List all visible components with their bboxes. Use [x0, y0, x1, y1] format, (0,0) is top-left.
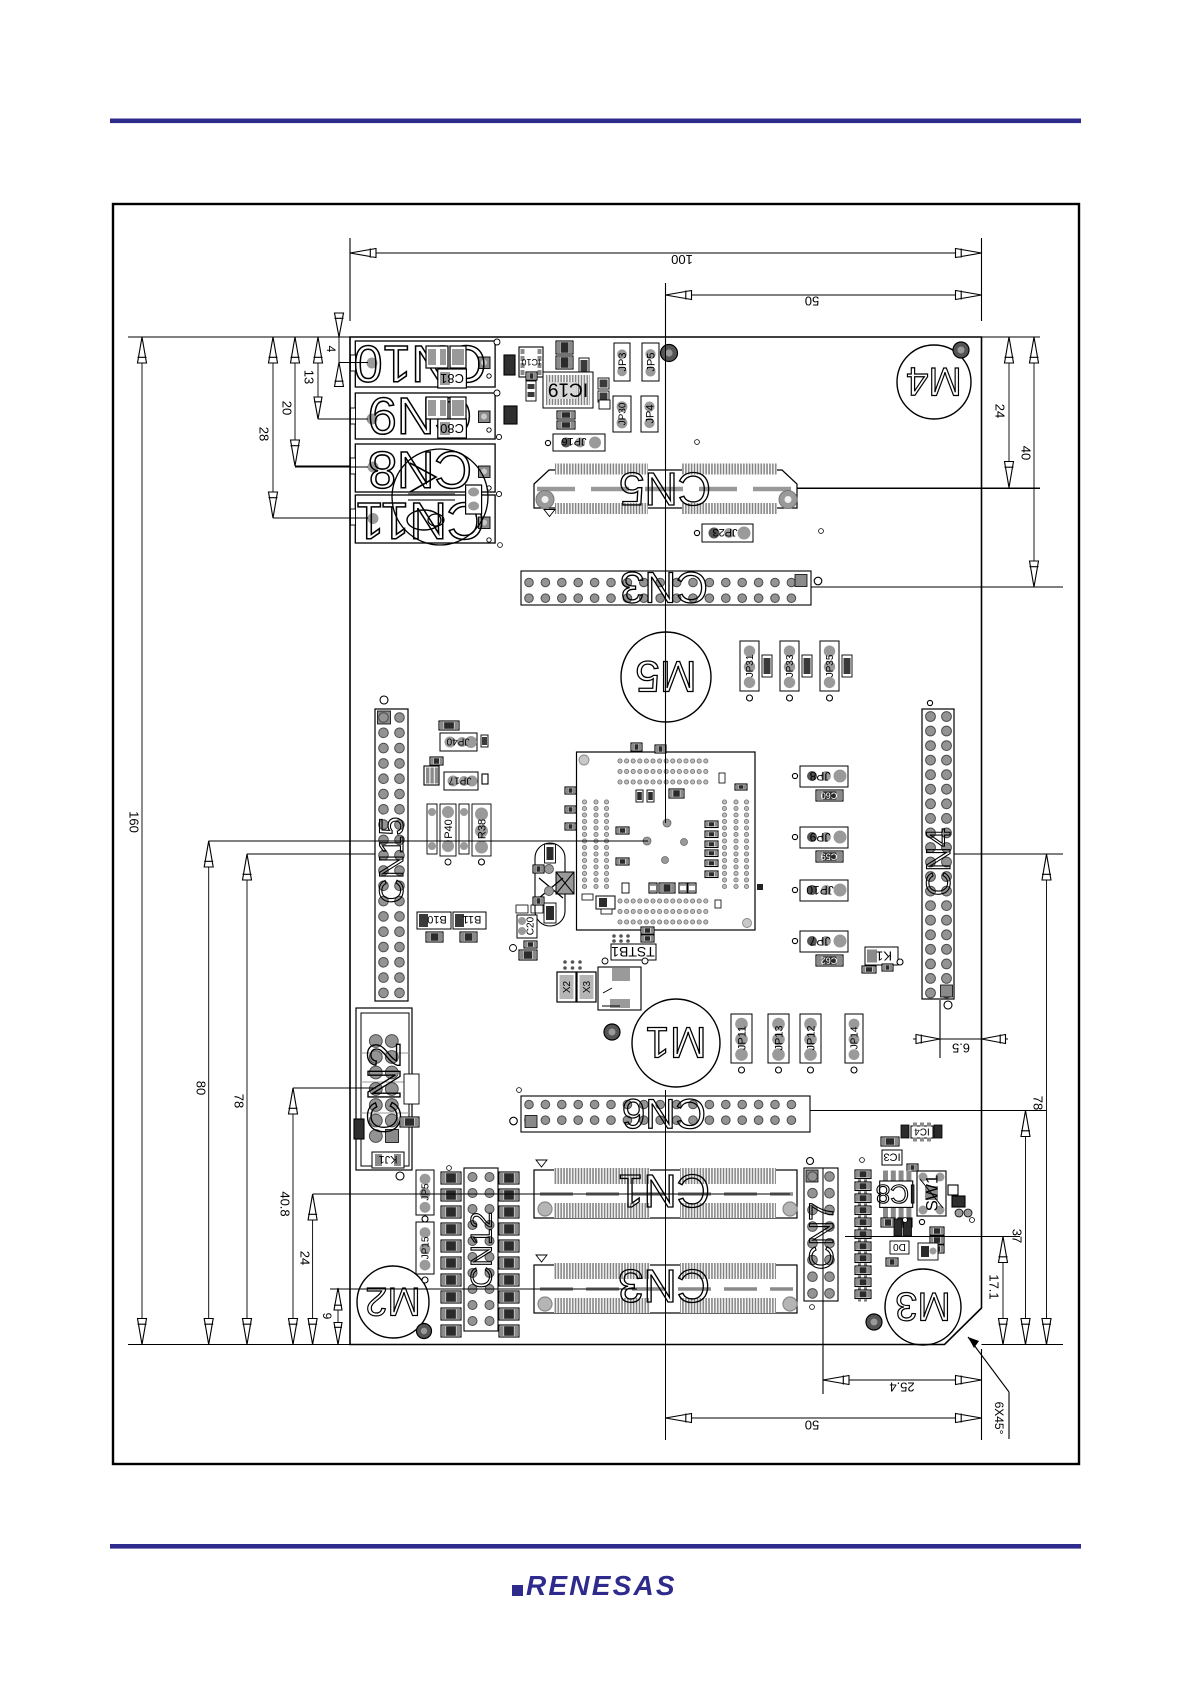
board outline	[350, 337, 982, 1345]
dimension 78 right	[1046, 854, 1048, 1345]
jumper JP23	[702, 524, 753, 542]
pad centre	[663, 819, 671, 827]
svg-text:JP17: JP17	[448, 775, 471, 786]
svg-text:24: 24	[298, 1251, 313, 1265]
crystal X1 body	[556, 872, 574, 894]
connector CN15	[375, 709, 408, 1001]
Renesas logo	[512, 1570, 677, 1601]
svg-text:CN3: CN3	[618, 1260, 710, 1312]
svg-text:78: 78	[1031, 1096, 1046, 1110]
jumper JP35	[820, 641, 839, 691]
jumper JP3	[613, 396, 631, 432]
IC7 sot	[424, 766, 439, 785]
svg-text:B11: B11	[463, 913, 482, 925]
oscillator TSTB1	[611, 944, 656, 960]
svg-text:C81: C81	[440, 371, 464, 386]
svg-text:CN15: CN15	[373, 817, 411, 904]
svg-text:C60: C60	[821, 790, 838, 800]
svg-text:9: 9	[320, 1313, 334, 1320]
mount hole M3	[885, 1269, 961, 1345]
jumper JP40	[440, 733, 477, 751]
svg-text:C80: C80	[440, 421, 464, 436]
svg-text:CN3: CN3	[620, 563, 708, 612]
test point TP1	[661, 345, 678, 362]
crystal X2	[557, 972, 576, 1002]
oscillator OSC1	[598, 967, 641, 1010]
svg-text:JP15: JP15	[421, 1236, 432, 1259]
resistors left of U1	[516, 905, 528, 913]
svg-text:C20: C20	[526, 916, 537, 935]
jumper JP12	[800, 1014, 821, 1063]
svg-text:RENESAS: RENESAS	[526, 1570, 677, 1601]
test point TP2	[604, 1024, 620, 1040]
jumper JP7	[800, 931, 848, 952]
drawing frame	[113, 204, 1079, 1464]
capacitor C63	[557, 421, 575, 429]
relay K1	[865, 947, 898, 965]
connector CN1	[534, 1170, 797, 1218]
test point TP9	[866, 1314, 882, 1330]
svg-text:SW1: SW1	[923, 1175, 942, 1212]
extension line board top left	[128, 336, 350, 338]
buzzer BZ1	[392, 449, 488, 545]
capacitor C20	[517, 915, 537, 938]
jumper JP16	[553, 434, 605, 451]
extension line top corners vertical	[349, 238, 351, 321]
svg-text:C59: C59	[821, 851, 838, 861]
connector CN12	[464, 1168, 498, 1331]
marker triangle CN3	[536, 1255, 547, 1262]
dimension 17.1	[1002, 1237, 1004, 1345]
svg-text:IC10: IC10	[521, 357, 540, 367]
resistor column R30s	[855, 1170, 871, 1179]
svg-text:4: 4	[324, 346, 338, 353]
svg-text:JP30: JP30	[618, 402, 629, 425]
extension line x940 CN4 centre	[939, 1000, 941, 1058]
capacitor C93	[556, 341, 573, 354]
capacitor C62	[816, 955, 843, 966]
part TB0	[890, 1241, 909, 1254]
svg-text:P40: P40	[443, 819, 455, 839]
svg-text:R38: R38	[476, 819, 488, 839]
svg-text:100: 100	[671, 252, 693, 267]
svg-text:JP5: JP5	[421, 1183, 432, 1201]
capacitor C11	[430, 757, 443, 765]
connector CN3 bottom	[534, 1265, 797, 1313]
svg-text:28: 28	[256, 427, 271, 441]
svg-text:JP16: JP16	[561, 435, 586, 447]
dimension 28	[272, 337, 274, 518]
dimension 13	[317, 337, 319, 419]
svg-text:JP11: JP11	[736, 1026, 748, 1050]
note 6X45 chamfer	[1008, 1392, 1010, 1439]
jumper JP5b	[416, 1170, 434, 1215]
test point TP5	[417, 1324, 432, 1339]
extension line board top right	[982, 336, 1041, 338]
mount hole M2	[357, 1266, 429, 1338]
dimension 78 left	[246, 854, 248, 1345]
svg-text:6X45°: 6X45°	[992, 1402, 1006, 1435]
capacitor C61	[557, 411, 575, 419]
svg-text:TSTB1: TSTB1	[611, 944, 655, 960]
jumper JP5	[642, 343, 659, 381]
svg-text:160: 160	[127, 811, 142, 833]
svg-text:CN1: CN1	[618, 1165, 710, 1217]
connector CN7	[804, 1168, 838, 1301]
crystal X3	[577, 972, 596, 1002]
svg-text:CN4: CN4	[920, 828, 958, 896]
via dots	[498, 543, 503, 548]
jumper JP20	[930, 1227, 944, 1235]
jumper JP17	[444, 772, 478, 790]
test point TP8	[953, 342, 969, 358]
IC9	[901, 1125, 909, 1138]
svg-text:JP13: JP13	[773, 1025, 785, 1050]
svg-text:IC19: IC19	[548, 378, 588, 399]
capacitor C26	[524, 941, 537, 948]
extension line board bottom right	[982, 1344, 1064, 1346]
connector CN3 top	[521, 571, 811, 605]
svg-text:IC3: IC3	[883, 1151, 900, 1163]
resistor R2	[948, 1185, 958, 1195]
dimension 4	[338, 337, 340, 363]
resistor R20	[881, 1137, 899, 1146]
svg-text:KJ1: KJ1	[379, 1153, 398, 1165]
capacitor C83	[466, 485, 482, 514]
jumper JP14	[845, 1014, 863, 1063]
jumper JP9	[800, 827, 848, 848]
svg-text:CN12: CN12	[466, 1212, 499, 1289]
marker triangle CN1	[536, 1160, 547, 1167]
dimension 25.4	[823, 1379, 982, 1381]
svg-text:40: 40	[1018, 446, 1033, 460]
svg-text:17.1: 17.1	[987, 1274, 1002, 1299]
connector CN4	[922, 709, 954, 999]
mount hole M1	[632, 999, 720, 1087]
svg-text:80: 80	[194, 1081, 209, 1095]
svg-text:50: 50	[805, 293, 819, 308]
switch SW1	[917, 1171, 946, 1216]
svg-text:X2: X2	[562, 980, 573, 993]
part on CN2	[404, 1074, 419, 1104]
connector CN11	[355, 495, 495, 543]
svg-text:JP8: JP8	[809, 769, 830, 783]
svg-text:JP7: JP7	[809, 934, 830, 948]
svg-text:JP31: JP31	[745, 654, 756, 677]
dimension 6.5	[913, 1038, 1008, 1040]
svg-text:M2: M2	[365, 1279, 421, 1323]
dimension 9	[337, 1288, 339, 1345]
svg-text:CN7: CN7	[803, 1202, 841, 1270]
reference lines overlay	[339, 362, 368, 364]
dimension 24 left	[312, 1194, 314, 1345]
svg-text:JP3: JP3	[617, 353, 629, 372]
diodes D0	[881, 1218, 895, 1227]
IC8	[883, 1171, 888, 1181]
svg-text:M1: M1	[645, 1018, 706, 1067]
svg-text:C62: C62	[821, 955, 838, 965]
dimension 50 bottom	[666, 1417, 982, 1419]
svg-text:JP9: JP9	[809, 830, 830, 844]
jumper JP11	[731, 1014, 752, 1063]
resistor R30	[519, 950, 537, 960]
svg-text:78: 78	[232, 1094, 247, 1108]
dimension 37	[1025, 1111, 1027, 1345]
jumper JP4	[641, 396, 658, 432]
svg-text:JP33: JP33	[785, 654, 796, 677]
dimension 100	[350, 252, 982, 254]
jumper JP8	[800, 766, 848, 787]
resistor R38	[472, 804, 491, 856]
jumper JP15	[614, 343, 630, 381]
connector CN2	[356, 1008, 412, 1170]
svg-text:50: 50	[805, 1418, 819, 1433]
jumper JP31	[740, 641, 759, 691]
svg-text:JP40: JP40	[446, 736, 469, 747]
jack J1	[372, 1152, 404, 1168]
resistor column R60s	[441, 1172, 461, 1184]
vertical centre line	[665, 283, 667, 823]
dimension 50 top	[666, 294, 982, 296]
svg-text:M4: M4	[906, 359, 962, 403]
dimension 160	[141, 337, 143, 1345]
svg-text:JP14: JP14	[850, 1026, 861, 1049]
svg-text:X3: X3	[582, 980, 593, 993]
IC10	[519, 347, 543, 377]
jumper JP13	[768, 1014, 789, 1063]
IC6	[543, 372, 593, 408]
connector CN6	[521, 1096, 810, 1132]
svg-text:6.5: 6.5	[952, 1041, 970, 1056]
jumper B11	[453, 912, 486, 929]
part P bottom left of U1	[596, 896, 615, 909]
IC3	[882, 1150, 902, 1165]
dimension 40 right	[1033, 337, 1035, 587]
extension line board right bottom	[981, 1349, 983, 1440]
svg-text:B10: B10	[427, 913, 447, 925]
dimension 80	[208, 841, 210, 1345]
capacitor C60	[816, 790, 843, 801]
svg-text:24: 24	[992, 404, 1007, 418]
centre line through U1	[665, 752, 667, 823]
svg-text:25.4: 25.4	[889, 1380, 914, 1395]
jumper P41	[427, 804, 437, 854]
svg-text:JP35: JP35	[825, 654, 836, 677]
marker triangle CN5	[544, 510, 555, 517]
jumper P40	[440, 804, 456, 856]
module U1 QFP	[577, 752, 756, 930]
svg-text:JP4: JP4	[644, 405, 656, 424]
jumper B10	[417, 912, 451, 929]
jumper JP15b	[416, 1222, 434, 1274]
svg-text:D0: D0	[893, 1241, 906, 1252]
svg-text:20: 20	[279, 401, 294, 415]
connector CN5	[534, 470, 797, 508]
svg-text:JP23: JP23	[712, 526, 737, 538]
crystal X1	[535, 843, 565, 926]
connector CN9	[355, 393, 495, 439]
top rule	[110, 119, 1081, 124]
svg-text:JP10: JP10	[806, 883, 834, 897]
resistor column R50s	[499, 1172, 519, 1184]
svg-text:CN6: CN6	[622, 1090, 706, 1137]
svg-text:40.8: 40.8	[278, 1191, 293, 1216]
extension line board bottom left	[128, 1344, 350, 1346]
dimension 40.8	[292, 1088, 294, 1345]
resistor R61	[439, 721, 459, 730]
jumper JP33	[780, 641, 799, 691]
mount hole M5	[621, 632, 711, 722]
extension line x823 bottom	[822, 1168, 824, 1394]
svg-text:JP5: JP5	[645, 353, 657, 372]
bottom rule	[110, 1544, 1081, 1549]
capacitor C59	[816, 851, 843, 862]
diode D2	[504, 355, 515, 375]
svg-text:IC4: IC4	[914, 1126, 930, 1137]
dimension 24 right	[1008, 337, 1010, 488]
svg-text:K1: K1	[876, 949, 892, 964]
connector CN8	[355, 444, 495, 492]
capacitor C99	[556, 356, 573, 369]
svg-text:M3: M3	[895, 1284, 951, 1328]
dimension 20	[294, 337, 296, 466]
connector CN10	[355, 341, 495, 387]
jumper JP10	[800, 880, 848, 901]
mount hole M4	[897, 345, 971, 419]
svg-text:JP12: JP12	[805, 1025, 817, 1050]
capacitors inside U1	[636, 790, 643, 802]
svg-text:13: 13	[301, 370, 316, 384]
svg-text:IC8: IC8	[876, 1179, 916, 1209]
